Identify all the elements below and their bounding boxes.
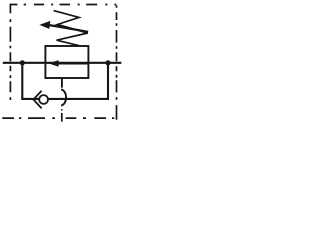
wire: bypass line left of check valve (21, 98, 39, 100)
drain line hop arc over bypass (61, 89, 66, 105)
wire: left riser (21, 63, 23, 99)
enclosure left dash-dot border (9, 4, 11, 100)
spring adjustment arrow (39, 21, 88, 33)
enclosure top dash-dot border (10, 4, 116, 6)
wire: bypass line right of check valve (48, 98, 109, 100)
enclosure bottom dash-dot border (2, 117, 114, 119)
junction node right (105, 60, 110, 65)
drain line dot below hop (61, 109, 63, 110)
wire: right riser (107, 63, 109, 99)
drain line dash crossing bottom border (61, 113, 63, 122)
junction node left (20, 60, 25, 65)
spring (54, 11, 88, 46)
check valve ball (39, 95, 48, 104)
enclosure right dash-dot border (116, 5, 118, 120)
check valve seat (33, 91, 41, 109)
wire: main horizontal line (3, 62, 122, 64)
valve internal arrow (49, 60, 89, 67)
drain line dash above hop (61, 78, 63, 88)
valve body square (45, 46, 88, 78)
